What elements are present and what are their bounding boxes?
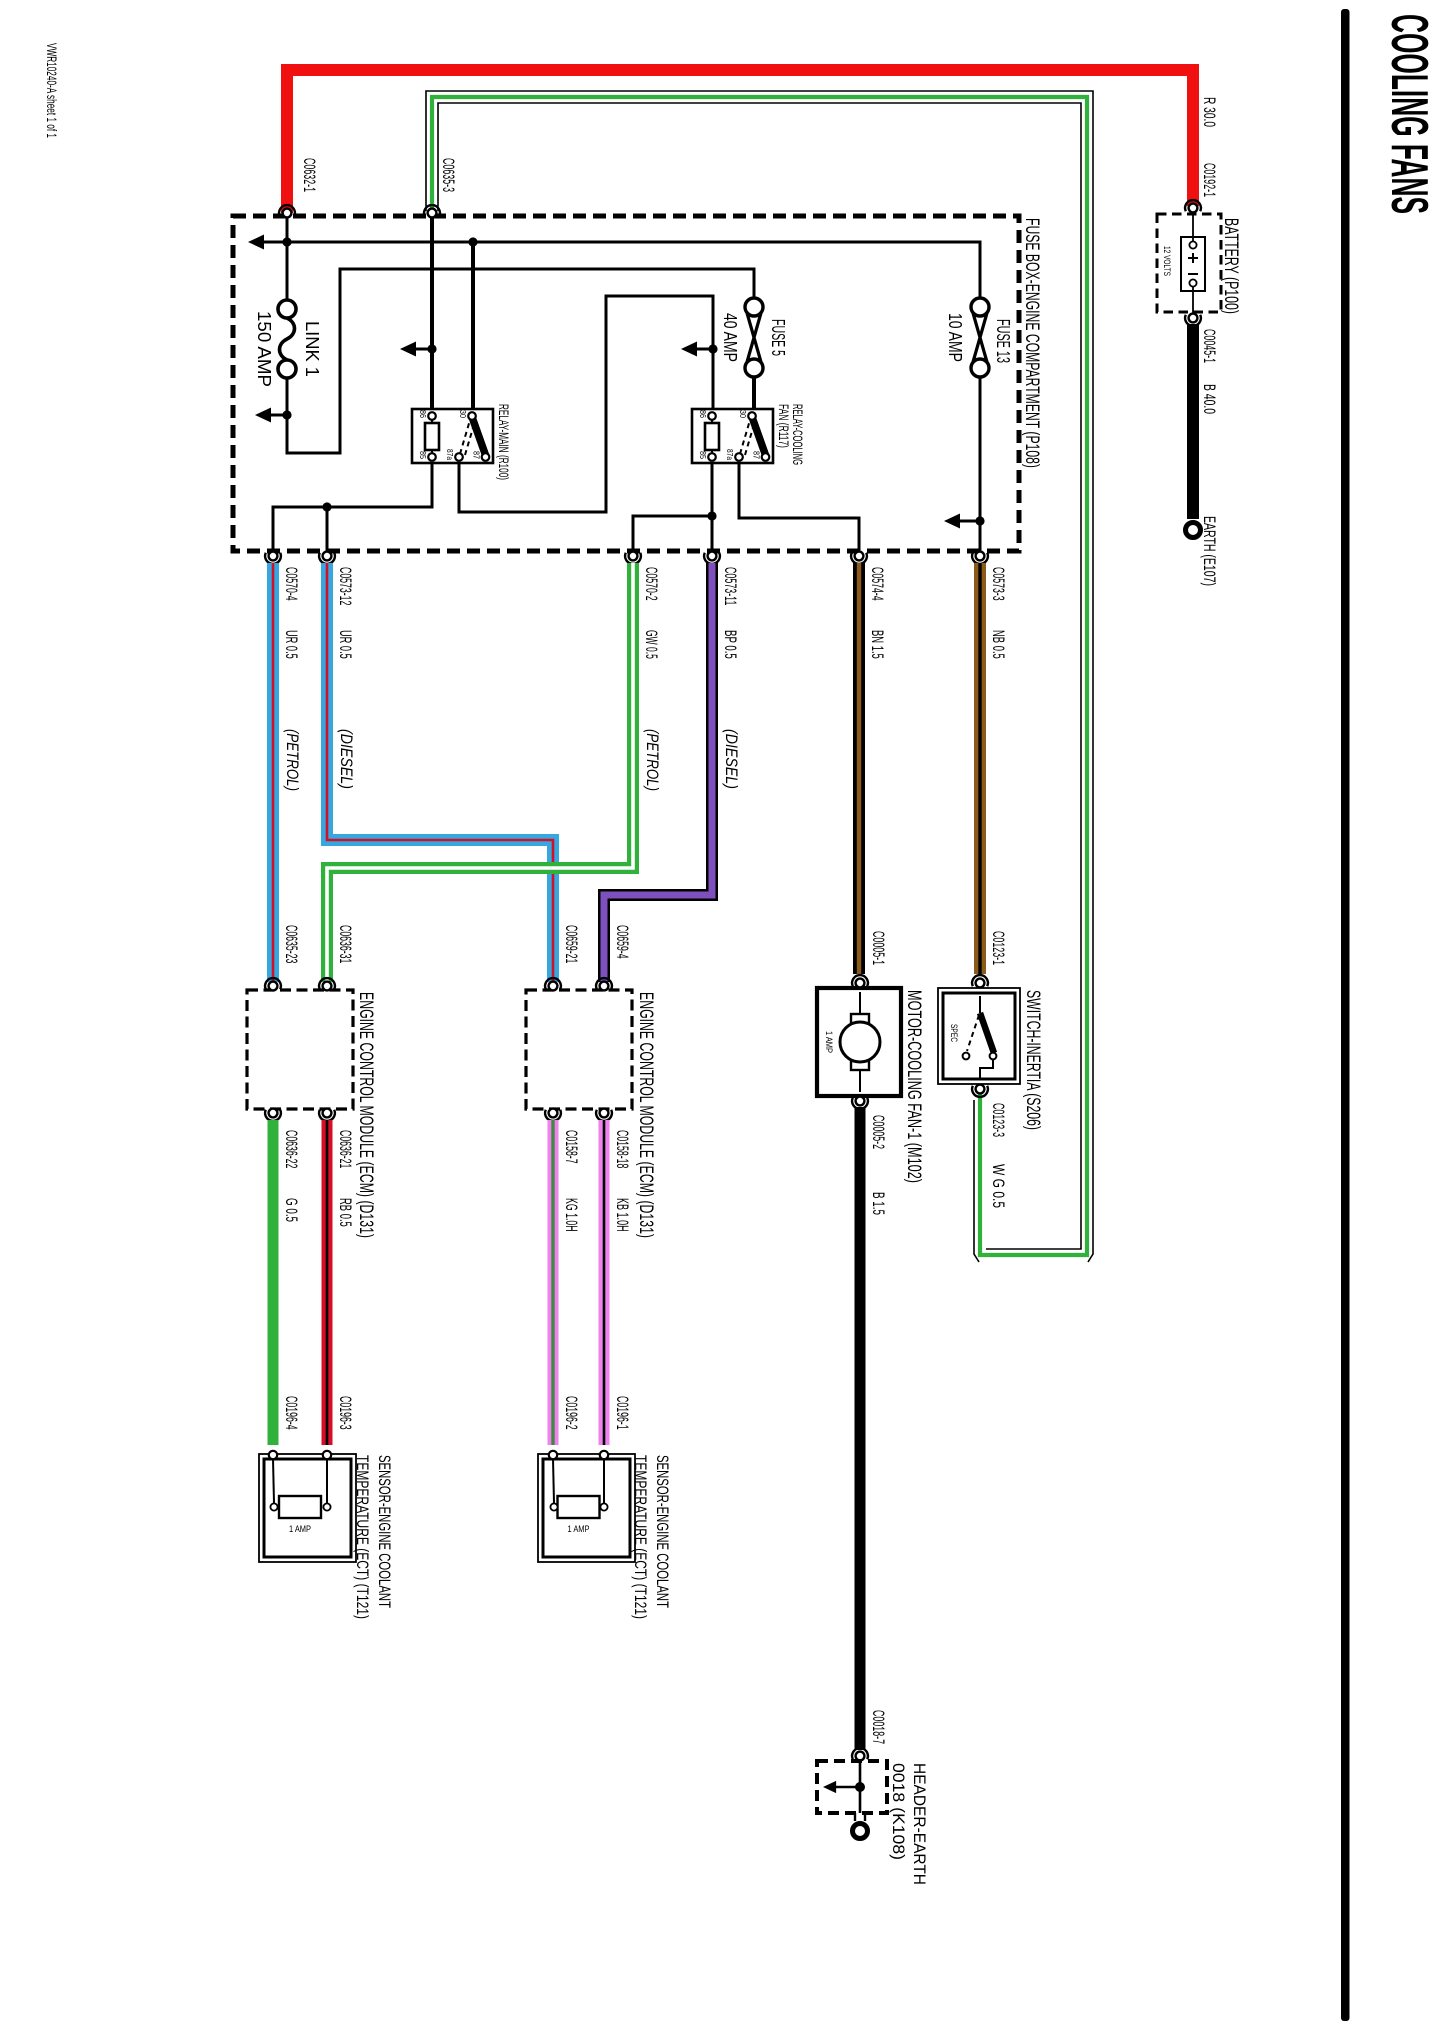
label C0005-2 — [869, 1115, 887, 1149]
label C0196-4 — [282, 1396, 300, 1430]
svg-text:BATTERY (P100): BATTERY (P100) — [1220, 218, 1241, 314]
label C0635-23 — [282, 925, 300, 963]
label C0192-1 — [1200, 163, 1218, 197]
svg-text:C0570-4: C0570-4 — [282, 567, 300, 601]
svg-text:C0659-4: C0659-4 — [613, 925, 631, 959]
label C0636-22 — [282, 1130, 300, 1168]
label FUSE 13 — [993, 319, 1013, 363]
svg-text:W G 0.5: W G 0.5 — [989, 1164, 1007, 1208]
label FUSE BOX-ENGINE COMPARTMENT (P108) — [1021, 218, 1042, 468]
header-earth internal node — [823, 1761, 865, 1813]
connector C0632-1 (red feed) — [279, 205, 295, 217]
wire fuse13 down to connector C0573-3 — [979, 377, 982, 551]
label 1 AMP (motor) — [824, 1031, 834, 1053]
wire LINK1 to fuse 5 feed — [287, 269, 754, 453]
label C0570-2 — [642, 567, 660, 601]
label KB 1.0H — [613, 1198, 631, 1232]
svg-text:RELAY-MAIN (R100): RELAY-MAIN (R100) — [496, 404, 511, 480]
label C0573-3 — [989, 567, 1007, 601]
connector C0570-2 — [625, 552, 641, 564]
label C0636-31 — [336, 925, 354, 963]
svg-text:C0635-3: C0635-3 — [439, 158, 457, 192]
label SPEC (switch) — [949, 1024, 959, 1042]
label RELAY-MAIN (R100) — [496, 404, 511, 480]
svg-text:TEMPERATURE (ECT) (T121): TEMPERATURE (ECT) (T121) — [631, 1455, 650, 1619]
svg-text:KB 1.0H: KB 1.0H — [613, 1198, 631, 1232]
svg-text:R 30.0: R 30.0 — [1200, 97, 1218, 127]
earth ring terminal K108 — [853, 1813, 868, 1839]
svg-text:85: 85 — [418, 451, 427, 459]
svg-text:FUSE 5: FUSE 5 — [768, 319, 788, 356]
svg-text:B 40.0: B 40.0 — [1200, 384, 1218, 414]
label (PETROL) wire 3 — [643, 729, 661, 791]
label BN 1.5 — [868, 630, 886, 659]
connector C0574-4 — [851, 552, 867, 564]
svg-text:RB 0.5: RB 0.5 — [336, 1198, 354, 1227]
label C0158-18 — [613, 1130, 631, 1168]
svg-text:30: 30 — [458, 410, 467, 418]
svg-text:87a: 87a — [445, 449, 454, 460]
earth terminal E107 — [1186, 523, 1201, 538]
sheet footer text — [44, 43, 59, 138]
ECM2 connectors top C0659-21 / C0659-4 — [545, 978, 612, 990]
battery symbol — [1181, 214, 1205, 314]
svg-text:BN 1.5: BN 1.5 — [868, 630, 886, 659]
svg-text:TEMPERATURE (ECT) (T121): TEMPERATURE (ECT) (T121) — [353, 1455, 372, 1619]
label C0570-4 — [282, 567, 300, 601]
header-earth K108 dashed box — [817, 1761, 887, 1813]
svg-text:SWITCH-INERTIA (S206): SWITCH-INERTIA (S206) — [1022, 990, 1043, 1130]
svg-text:GW 0.5: GW 0.5 — [642, 630, 660, 659]
svg-text:EARTH (E107): EARTH (E107) — [1200, 516, 1218, 586]
svg-text:C0196-4: C0196-4 — [282, 1396, 300, 1430]
wire R100 pin87a to relay R117 pin86 — [459, 296, 713, 512]
title side bar — [1341, 9, 1350, 2021]
svg-text:87a: 87a — [725, 449, 734, 460]
connector C0570-4 — [265, 552, 281, 564]
svg-text:C0573-11: C0573-11 — [721, 567, 739, 605]
ECM1 connectors top C0635-23 / C0636-31 — [265, 978, 335, 990]
svg-text:ENGINE CONTROL MODULE (ECM) (D: ENGINE CONTROL MODULE (ECM) (D131) — [355, 992, 376, 1238]
connector C0573-3 — [972, 552, 988, 564]
spur arrow at fuse13 output — [944, 514, 985, 529]
sensor T121 ECT diesel box — [538, 1451, 635, 1562]
label RELAY-COOLING FAN (R117) — [776, 404, 805, 465]
svg-text:87: 87 — [752, 451, 761, 459]
label SENSOR-ENGINE COOLANT TEMPERATURE (ECT) (T121) #2 — [631, 1455, 672, 1619]
label C0573-12 — [336, 567, 354, 605]
label C0632-1 — [300, 158, 318, 192]
label BATTERY (P100) — [1220, 218, 1241, 314]
svg-text:C0018-7: C0018-7 — [869, 1710, 887, 1744]
label LINK 1 — [302, 321, 322, 377]
label G 0.5 — [282, 1198, 300, 1222]
svg-text:150 AMP: 150 AMP — [254, 311, 274, 387]
svg-text:C0573-12: C0573-12 — [336, 567, 354, 605]
wire R30.0 battery positive feed (red) — [287, 64, 1193, 213]
svg-text:C0158-18: C0158-18 — [613, 1130, 631, 1168]
wire GW0.5 C0570-2 to ECM1 C0636-31 (green/white) — [327, 563, 633, 982]
svg-text:C0635-23: C0635-23 — [282, 925, 300, 963]
svg-text:NB 0.5: NB 0.5 — [989, 630, 1007, 659]
label HEADER-EARTH 0018 (K108) — [889, 1763, 929, 1885]
svg-text:C0005-2: C0005-2 — [869, 1115, 887, 1149]
label C0158-7 — [562, 1130, 580, 1164]
svg-text:UR 0.5: UR 0.5 — [336, 630, 354, 659]
svg-text:FUSE 13: FUSE 13 — [993, 319, 1013, 363]
spur arrow on R117 coil feed — [681, 342, 718, 357]
wire bus to relay R100 pin 30 — [471, 246, 475, 409]
label 10 AMP — [945, 313, 965, 362]
spur arrow on R100 coil feed — [400, 342, 437, 357]
switch S206 box — [938, 988, 1020, 1084]
label C0659-4 — [613, 925, 631, 959]
svg-text:ENGINE CONTROL MODULE (ECM) (D: ENGINE CONTROL MODULE (ECM) (D131) — [635, 992, 656, 1238]
battery B+ connector C0192-1 — [1185, 200, 1201, 212]
wire red connector to LINK 1 — [286, 217, 289, 300]
svg-text:B 1.5: B 1.5 — [869, 1192, 887, 1215]
svg-text:UR 0.5: UR 0.5 — [282, 630, 300, 659]
wire UR0.5 C0573-12 to ECM2 C0659-21 (blue/red) — [327, 563, 553, 982]
label BP 0.5 — [721, 630, 739, 659]
wire fuse5 to relay R117 pin30 — [752, 377, 756, 409]
label SENSOR-ENGINE COOLANT TEMPERATURE (ECT) (T121) #1 — [353, 1455, 394, 1619]
svg-text:30: 30 — [738, 410, 747, 418]
label C0018-7 — [869, 1710, 887, 1744]
wire KG1.0H C0158-7 to sensor C0196-2 (pink/green) — [548, 1120, 559, 1445]
label (PETROL) wire 1 — [283, 729, 301, 791]
svg-text:C0123-1: C0123-1 — [989, 931, 1007, 965]
svg-text:86: 86 — [698, 410, 707, 418]
svg-text:(DIESEL): (DIESEL) — [722, 729, 740, 789]
svg-text:KG 1.0H: KG 1.0H — [562, 1198, 580, 1232]
svg-text:C0632-1: C0632-1 — [300, 158, 318, 192]
junction bus / relay R100 pin30 — [468, 237, 477, 246]
svg-text:SENSOR-ENGINE COOLANT: SENSOR-ENGINE COOLANT — [375, 1455, 394, 1608]
junction red feed / bus — [282, 237, 291, 246]
svg-text:0018 (K108): 0018 (K108) — [889, 1763, 908, 1860]
label C0573-11 — [721, 567, 739, 605]
label C0123-1 — [989, 931, 1007, 965]
label KG 1.0H — [562, 1198, 580, 1232]
svg-text:C0570-2: C0570-2 — [642, 567, 660, 601]
fuse box P108 dashed border — [233, 216, 1019, 551]
svg-text:C0659-21: C0659-21 — [562, 925, 580, 963]
wire BP0.5 C0573-11 to ECM2 C0659-4 (black/purple) — [604, 563, 712, 982]
label ENGINE CONTROL MODULE (ECM) (D131) for ECM2 — [635, 992, 656, 1238]
battery P100 dashed box — [1157, 214, 1221, 312]
svg-text:C0045-1: C0045-1 — [1200, 329, 1218, 363]
label RB 0.5 — [336, 1198, 354, 1227]
svg-text:C0636-22: C0636-22 — [282, 1130, 300, 1168]
label C0636-21 — [336, 1130, 354, 1168]
svg-text:MOTOR-COOLING FAN-1 (M102): MOTOR-COOLING FAN-1 (M102) — [903, 990, 924, 1183]
wire R100 pin85 to ECM connectors — [273, 463, 432, 551]
svg-text:(DIESEL): (DIESEL) — [337, 729, 355, 789]
label UR 0.5 — [282, 630, 300, 659]
wire RB0.5 C0636-21 to sensor C0196-3 (red/black) — [322, 1120, 333, 1445]
connector C0635-3 (screened wire) — [424, 205, 440, 217]
switch connector C0123-3 — [972, 1085, 988, 1097]
label 40 AMP — [720, 313, 740, 362]
svg-text:1 AMP: 1 AMP — [824, 1031, 834, 1053]
svg-text:COOLING FANS: COOLING FANS — [1380, 14, 1438, 214]
wire R117 pin87a to connector C0574-4 — [739, 463, 859, 551]
label C0196-2 — [562, 1396, 580, 1430]
wire NB0.5 C0573-3 to inertia switch C0123-1 (brown/black) — [974, 563, 986, 974]
label EARTH (E107) — [1200, 516, 1218, 586]
fusible link LINK 1 — [278, 300, 296, 378]
label (DIESEL) wire 4 — [722, 729, 740, 789]
wire B40.0 battery earth (black) — [1187, 324, 1199, 519]
wire UR0.5 C0570-4 to ECM1 C0635-23 (blue/red) — [267, 563, 279, 982]
svg-text:C0196-3: C0196-3 — [336, 1396, 354, 1430]
svg-text:(PETROL): (PETROL) — [643, 729, 661, 791]
svg-text:C0123-3: C0123-3 — [989, 1103, 1007, 1137]
svg-text:C0005-1: C0005-1 — [869, 931, 887, 965]
svg-text:10 AMP: 10 AMP — [945, 313, 965, 362]
title COOLING FANS — [1380, 14, 1438, 214]
svg-text:SPEC: SPEC — [949, 1024, 959, 1042]
wire screened connector C0635-3 to relay R100 pin 86 — [430, 217, 434, 409]
label ENGINE CONTROL MODULE (ECM) (D131) for ECM1 — [355, 992, 376, 1238]
svg-text:1 AMP: 1 AMP — [568, 1524, 590, 1534]
header connector C0018-7 — [852, 1748, 868, 1760]
fuse FUSE 13 10 AMP — [971, 298, 989, 377]
svg-text:FAN (R117): FAN (R117) — [776, 404, 791, 448]
label C0196-1 — [613, 1396, 631, 1430]
label C0123-3 — [989, 1103, 1007, 1137]
svg-text:1 AMP: 1 AMP — [289, 1524, 311, 1534]
ECM1 connectors bottom C0636-22 / C0636-21 — [265, 1109, 335, 1121]
label C0659-21 — [562, 925, 580, 963]
svg-text:C0196-1: C0196-1 — [613, 1396, 631, 1430]
svg-text:(PETROL): (PETROL) — [283, 729, 301, 791]
label B40.0 — [1200, 384, 1218, 414]
svg-text:SENSOR-ENGINE COOLANT: SENSOR-ENGINE COOLANT — [653, 1455, 672, 1608]
svg-text:C0192-1: C0192-1 — [1200, 163, 1218, 197]
wire KB1.0H C0158-18 to sensor C0196-1 (pink/black) — [599, 1120, 610, 1445]
svg-text:C0574-4: C0574-4 — [868, 567, 886, 601]
svg-text:C0573-3: C0573-3 — [989, 567, 1007, 601]
svg-text:12 VOLTS: 12 VOLTS — [1162, 246, 1172, 276]
label C0005-1 — [869, 931, 887, 965]
svg-text:BP 0.5: BP 0.5 — [721, 630, 739, 659]
wire R117 pin85 to connectors C0570-2 / C0573-11 — [633, 463, 717, 551]
motor connector C0005-1 — [852, 975, 868, 987]
wire main bus from battery feed — [263, 242, 980, 298]
label C0045-1 — [1200, 329, 1218, 363]
fuse FUSE 5 40 AMP — [745, 298, 763, 377]
motor M102 box — [817, 988, 901, 1096]
spur arrow below LINK1 — [255, 408, 292, 423]
svg-text:FUSE BOX-ENGINE COMPARTMENT (P: FUSE BOX-ENGINE COMPARTMENT (P108) — [1021, 218, 1042, 468]
ECM2 connectors bottom C0158-7 / C0158-18 — [545, 1109, 612, 1121]
sensor T121 ECT petrol box — [259, 1451, 356, 1562]
label 12 VOLTS — [1162, 246, 1172, 276]
label C0574-4 — [868, 567, 886, 601]
svg-text:RELAY-COOLING: RELAY-COOLING — [790, 404, 805, 465]
svg-text:C0636-31: C0636-31 — [336, 925, 354, 963]
screened wire loop (green with black screen lines) — [426, 91, 1093, 1262]
svg-text:C0158-7: C0158-7 — [562, 1130, 580, 1164]
svg-text:HEADER-EARTH: HEADER-EARTH — [910, 1763, 929, 1885]
label UR 0.5 — [336, 630, 354, 659]
bus continuation arrow — [248, 235, 264, 250]
svg-text:VWR10240-A sheet 1 of 1: VWR10240-A sheet 1 of 1 — [44, 43, 59, 138]
label GW 0.5 — [642, 630, 660, 659]
svg-text:87: 87 — [472, 451, 481, 459]
label 150 AMP — [254, 311, 274, 387]
label R30.0 — [1200, 97, 1218, 127]
svg-text:G 0.5: G 0.5 — [282, 1198, 300, 1222]
label MOTOR-COOLING FAN-1 (M102) — [903, 990, 924, 1183]
ECM dashed box ECM2 D131 — [526, 990, 632, 1109]
relay R117 RELAY-COOLING FAN — [692, 409, 773, 463]
svg-text:40 AMP: 40 AMP — [720, 313, 740, 362]
label (DIESEL) wire 2 — [337, 729, 355, 789]
relay R100 RELAY-MAIN — [412, 409, 493, 463]
connector C0573-12 — [319, 552, 335, 564]
motor connector C0005-2 — [852, 1097, 868, 1109]
ECM dashed box ECM1 D131 — [247, 990, 353, 1109]
label C0635-3 — [439, 158, 457, 192]
svg-text:C0636-21: C0636-21 — [336, 1130, 354, 1168]
wire B1.5 motor to header earth (black) — [855, 1107, 866, 1750]
battery B- connector C0045-1 — [1185, 314, 1201, 326]
svg-text:86: 86 — [418, 410, 427, 418]
svg-text:C0196-2: C0196-2 — [562, 1396, 580, 1430]
svg-text:85: 85 — [698, 451, 707, 459]
connector C0573-11 — [704, 552, 720, 564]
wire BN1.5 C0574-4 to motor C0005-1 (black/brown) — [853, 563, 865, 974]
label B1.5 — [869, 1192, 887, 1215]
label NB 0.5 — [989, 630, 1007, 659]
label FUSE 5 — [768, 319, 788, 356]
label C0196-3 — [336, 1396, 354, 1430]
switch connector C0123-1 — [972, 975, 988, 987]
wire G0.5 C0636-22 to sensor C0196-4 (green) — [268, 1120, 279, 1445]
label SWITCH-INERTIA (S206) — [1022, 990, 1043, 1130]
label WG0.5 — [989, 1164, 1007, 1208]
svg-text:LINK 1: LINK 1 — [302, 321, 322, 377]
